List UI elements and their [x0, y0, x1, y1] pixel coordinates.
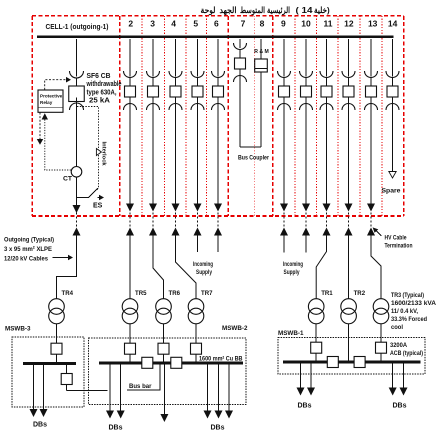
svg-text:HV Cable: HV Cable — [385, 235, 407, 242]
svg-text:TR6: TR6 — [169, 290, 181, 297]
svg-text:): ) — [327, 6, 330, 15]
svg-text:TR5: TR5 — [135, 290, 147, 297]
svg-text:ACB (typical): ACB (typical) — [390, 350, 423, 357]
svg-text:Incoming: Incoming — [193, 261, 213, 268]
svg-text:Supply: Supply — [284, 269, 300, 276]
svg-text:ES: ES — [93, 203, 103, 210]
svg-text:3200A: 3200A — [390, 342, 407, 349]
svg-text:Bus Coupler: Bus Coupler — [238, 155, 269, 162]
svg-text:5: 5 — [193, 19, 198, 29]
svg-text:2: 2 — [128, 19, 133, 29]
svg-text:25 kA: 25 kA — [89, 98, 110, 105]
svg-text:MSWB-3: MSWB-3 — [5, 326, 31, 333]
svg-text:R & M: R & M — [254, 49, 269, 55]
svg-text:لوحة: لوحة — [201, 5, 216, 16]
svg-text:TR3 (Typical): TR3 (Typical) — [391, 292, 424, 299]
svg-text:12/20 kV Cables: 12/20 kV Cables — [4, 256, 48, 263]
svg-text:8: 8 — [260, 19, 265, 29]
svg-text:TR2: TR2 — [354, 290, 366, 297]
svg-text:Incoming: Incoming — [283, 261, 303, 268]
svg-text:DBs: DBs — [393, 403, 407, 410]
svg-text:1600 mm² Cu BB: 1600 mm² Cu BB — [199, 355, 243, 362]
svg-text:6: 6 — [214, 19, 219, 29]
svg-text:TR7: TR7 — [201, 290, 213, 297]
svg-text:Supply: Supply — [196, 269, 212, 276]
svg-text:( 14: ( 14 — [296, 5, 313, 15]
svg-text:4: 4 — [171, 19, 176, 29]
svg-text:SF6 CB: SF6 CB — [87, 73, 111, 80]
svg-text:خلية: خلية — [314, 5, 328, 15]
svg-text:DBs: DBs — [211, 425, 225, 432]
svg-text:TR1: TR1 — [321, 290, 333, 297]
svg-text:11: 11 — [324, 19, 333, 29]
svg-text:MSWB-2: MSWB-2 — [222, 325, 248, 332]
svg-text:MSWB-1: MSWB-1 — [278, 330, 304, 337]
svg-text:Outgoing (Typical): Outgoing (Typical) — [4, 237, 54, 244]
svg-text:TR4: TR4 — [62, 290, 74, 297]
svg-text:10: 10 — [301, 19, 311, 29]
svg-text:DBs: DBs — [33, 422, 47, 429]
svg-text:13: 13 — [368, 19, 378, 29]
svg-text:DBs: DBs — [109, 425, 123, 432]
svg-text:Bus bar: Bus bar — [129, 383, 152, 390]
svg-text:7: 7 — [241, 19, 246, 29]
svg-text:12: 12 — [344, 19, 354, 29]
svg-text:14: 14 — [388, 19, 398, 29]
svg-text:Protective: Protective — [40, 94, 63, 99]
svg-text:Interlock: Interlock — [101, 142, 107, 167]
svg-text:3 x 95 mm² XLPE: 3 x 95 mm² XLPE — [4, 246, 52, 253]
svg-text:الجهد: الجهد — [220, 5, 237, 16]
svg-text:33.3% Forced: 33.3% Forced — [391, 316, 427, 323]
svg-text:CELL-1 (outgoing-1): CELL-1 (outgoing-1) — [46, 22, 110, 31]
svg-text:الرئيسية: الرئيسية — [267, 5, 290, 16]
svg-text:11/ 0.4 kV,: 11/ 0.4 kV, — [391, 308, 418, 315]
svg-text:Relay: Relay — [40, 100, 53, 105]
svg-text:cool: cool — [391, 324, 403, 331]
svg-text:DBs: DBs — [298, 403, 312, 410]
svg-text:3: 3 — [150, 19, 155, 29]
svg-text:Termination: Termination — [385, 243, 413, 250]
svg-text:CT: CT — [63, 176, 73, 183]
svg-text:المتوسط: المتوسط — [240, 5, 265, 16]
svg-text:withdrawable: withdrawable — [86, 81, 122, 88]
svg-text:1600/2133 kVA: 1600/2133 kVA — [391, 300, 436, 307]
svg-text:type 630A,: type 630A, — [87, 89, 117, 96]
svg-text:Spare: Spare — [382, 188, 402, 195]
svg-text:9: 9 — [281, 19, 286, 29]
